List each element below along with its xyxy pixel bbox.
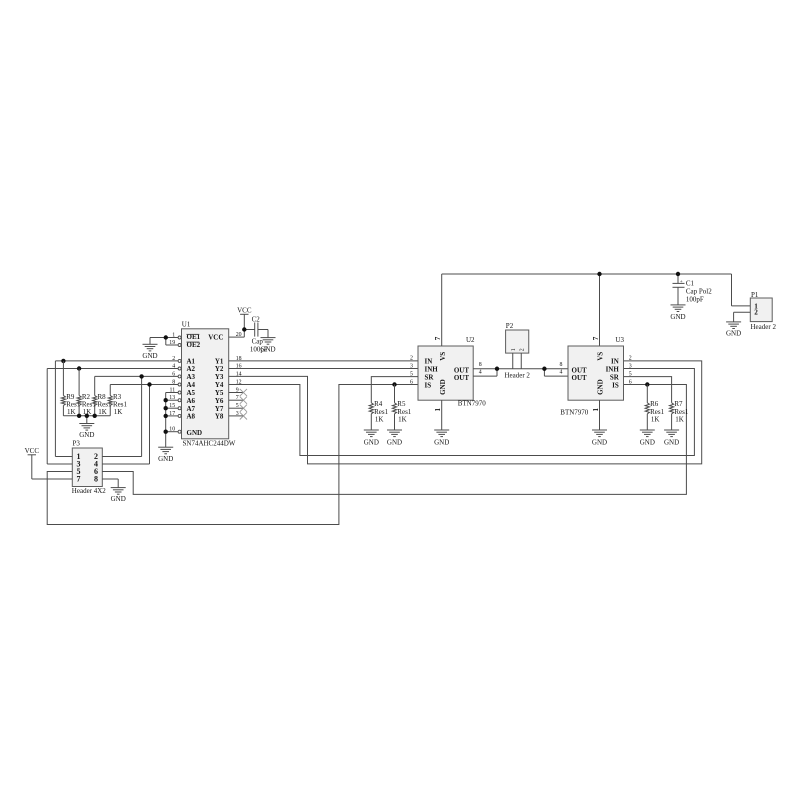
junction pin10 bus — [164, 430, 168, 434]
junction R6 top — [645, 382, 649, 386]
svg-text:U2: U2 — [466, 336, 475, 344]
svg-text:6: 6 — [410, 379, 413, 385]
svg-text:2: 2 — [754, 309, 758, 317]
svg-text:A4: A4 — [187, 381, 196, 389]
wire net A2 from P3 pin3 to U1 A2 — [47, 369, 178, 465]
ground OE — [142, 344, 157, 360]
junction VCC C2 — [242, 327, 246, 331]
junction R2 bottom — [77, 414, 81, 418]
junction R8 bottom — [93, 414, 97, 418]
svg-text:7: 7 — [77, 475, 81, 484]
power VCC at P3 pin7 — [25, 447, 40, 455]
ground R5 — [387, 430, 402, 446]
svg-text:GND: GND — [597, 379, 605, 395]
U2 pin numbers — [410, 336, 482, 411]
svg-text:GND: GND — [260, 345, 275, 353]
svg-text:Header 2: Header 2 — [504, 371, 530, 379]
wire net Y2 U1 to U2 INH — [229, 368, 418, 370]
svg-text:Header 4X2: Header 4X2 — [72, 487, 107, 495]
svg-text:VS: VS — [597, 352, 605, 361]
svg-text:A2: A2 — [187, 365, 196, 373]
svg-text:1K: 1K — [651, 416, 660, 424]
svg-text:1: 1 — [434, 408, 442, 412]
svg-text:BTN7970: BTN7970 — [458, 400, 487, 408]
svg-text:SR: SR — [425, 373, 435, 381]
svg-text:IS: IS — [425, 381, 432, 389]
svg-text:GND: GND — [670, 313, 685, 321]
wire net A3 from R8 and P3 pin2 to U1 A3 — [95, 376, 178, 456]
junction A8 bus — [164, 414, 168, 418]
svg-text:A6: A6 — [187, 397, 196, 405]
resistor R2 1K — [77, 393, 96, 416]
svg-text:6: 6 — [629, 379, 632, 385]
svg-text:4: 4 — [479, 370, 482, 376]
svg-text:C2: C2 — [252, 315, 261, 323]
svg-text:VCC: VCC — [25, 447, 40, 455]
svg-text:OUT: OUT — [572, 374, 588, 382]
svg-text:Y2: Y2 — [215, 365, 224, 373]
wire R4 bottom — [370, 414, 372, 430]
svg-text:1K: 1K — [67, 408, 76, 416]
wire Y8 no-connect stub — [229, 415, 244, 417]
svg-text:GND: GND — [158, 455, 173, 463]
resistor R5 1K — [392, 400, 411, 423]
svg-text:P2: P2 — [506, 322, 514, 330]
wire P1 pin2 to ground — [734, 312, 751, 322]
wire R4 to U2 SR — [371, 377, 418, 403]
svg-text:GND: GND — [434, 438, 449, 446]
wire U3 SR to R7 — [624, 377, 672, 403]
svg-text:INH: INH — [425, 365, 439, 373]
junction A1/R9 — [61, 359, 65, 363]
resistor R9 1K — [61, 393, 80, 416]
svg-text:SN74AHC244DW: SN74AHC244DW — [183, 440, 236, 448]
svg-text:BTN7970: BTN7970 — [560, 408, 589, 416]
ground P1 — [726, 322, 741, 338]
svg-text:GND: GND — [187, 429, 203, 437]
wire R6 top — [646, 385, 648, 403]
svg-text:1K: 1K — [675, 416, 684, 424]
svg-text:Y6: Y6 — [215, 397, 224, 405]
svg-text:8: 8 — [479, 362, 482, 368]
svg-text:GND: GND — [664, 438, 679, 446]
junction OUT left — [495, 367, 499, 371]
wire R5 bottom — [394, 414, 396, 430]
ground R6 — [640, 430, 655, 446]
junction A2/R2 — [77, 366, 81, 370]
ground R4 — [364, 430, 379, 446]
svg-text:100pF: 100pF — [686, 295, 704, 303]
capacitor C2 100pF — [250, 315, 268, 353]
U3 pin numbers — [560, 336, 632, 411]
resistor R3 1K — [108, 393, 127, 416]
wire R5 top — [394, 385, 396, 403]
svg-text:Y3: Y3 — [215, 373, 224, 381]
wire resistor bottoms common rail — [63, 406, 110, 424]
ground pull resistors — [79, 424, 94, 440]
wire P2 pins — [513, 353, 522, 369]
svg-text:A8: A8 — [187, 413, 196, 421]
wire net IS2 P3 pin5 to U2 IS (routed) — [47, 385, 418, 525]
wire net IS3 P3 pin6 to U3 IS (routed) — [102, 385, 686, 495]
svg-text:2: 2 — [410, 356, 413, 362]
wire Y7 no-connect stub — [229, 407, 244, 409]
junction A6 bus — [164, 398, 168, 402]
svg-text:2: 2 — [520, 348, 526, 351]
svg-text:8: 8 — [560, 362, 563, 368]
junction A7 bus — [164, 406, 168, 410]
header P2 body — [504, 322, 530, 379]
svg-text:7: 7 — [592, 336, 600, 340]
wire R2 top — [78, 369, 80, 396]
svg-text:1K: 1K — [398, 416, 407, 424]
capacitor C1 Cap Pol2 100pF — [673, 279, 713, 305]
wire R6 bottom — [646, 414, 648, 430]
svg-text:C1: C1 — [686, 280, 695, 288]
svg-text:8: 8 — [94, 475, 98, 484]
wire VS rail U2/U3/C1/P1 — [442, 274, 751, 346]
svg-text:1K: 1K — [98, 408, 107, 416]
wire Y5 no-connect stub — [229, 392, 244, 394]
svg-text:4: 4 — [560, 370, 563, 376]
junction OE pins — [164, 335, 168, 339]
wire net Y3 U1 to U3 IN (routed) — [229, 361, 702, 464]
svg-text:OUT: OUT — [454, 374, 470, 382]
U1 left pin stubs with input circles and pin numbers — [169, 332, 181, 433]
junction gnd tap — [85, 414, 89, 418]
header P3 4X2 body — [72, 440, 107, 495]
IC U2 BTN7970 body — [418, 336, 486, 407]
wire OUT net U2 to U3 with P2 taps — [473, 369, 568, 376]
junction U3 VS — [597, 272, 601, 276]
svg-text:GND: GND — [111, 495, 126, 503]
svg-text:U3: U3 — [615, 336, 624, 344]
junction A4 branch — [147, 382, 151, 386]
svg-text:Cap: Cap — [252, 337, 264, 345]
ground U2 — [434, 430, 449, 446]
junction A3 branch — [139, 374, 143, 378]
svg-text:GND: GND — [640, 438, 655, 446]
svg-text:GND: GND — [364, 438, 379, 446]
wire net A1 from P3 pin1 to U1 A1 — [55, 361, 178, 457]
wire VCC stem P3 — [31, 455, 33, 479]
wire A5-A8 and GND pin bus — [166, 393, 178, 448]
svg-text:SR: SR — [610, 373, 620, 381]
wire U3 GND pin — [599, 400, 601, 430]
svg-text:Y8: Y8 — [215, 413, 224, 421]
svg-text:Y4: Y4 — [215, 381, 224, 389]
svg-text:VCC: VCC — [237, 307, 252, 315]
wire P3 pin stubs — [32, 457, 150, 480]
ground U3 — [592, 430, 607, 446]
junction R5 top — [392, 382, 396, 386]
wire net Y1 U1 to U2 IN — [229, 360, 418, 362]
svg-text:7: 7 — [434, 336, 442, 340]
svg-text:2: 2 — [629, 356, 632, 362]
resistor R7 1K — [670, 400, 689, 423]
junction OUT right — [542, 367, 546, 371]
ground C2 — [260, 338, 275, 354]
svg-text:GND: GND — [592, 438, 607, 446]
ground C1 — [670, 305, 685, 321]
U1 right pin numbers — [236, 332, 242, 417]
svg-text:1K: 1K — [375, 416, 384, 424]
svg-text:Header 2: Header 2 — [751, 323, 777, 331]
header P1 body — [750, 291, 776, 331]
svg-text:U1: U1 — [182, 321, 191, 329]
ground U1 bus — [158, 447, 173, 463]
resistor R4 1K — [369, 400, 388, 423]
svg-text:GND: GND — [387, 438, 402, 446]
svg-text:GND: GND — [439, 379, 447, 395]
wire net Y4 U1 to U3 INH (routed) — [229, 369, 695, 456]
svg-text:IS: IS — [612, 381, 619, 389]
wire Y6 no-connect stub — [229, 399, 244, 401]
wire VCC to U1 pin20 and C2 — [229, 314, 268, 337]
resistor R8 1K — [93, 393, 112, 416]
svg-text:P1: P1 — [751, 291, 759, 299]
svg-text:GND: GND — [79, 431, 94, 439]
svg-text:1: 1 — [511, 348, 517, 351]
IC U3 BTN7970 body — [560, 336, 624, 416]
ground R7 — [664, 430, 679, 446]
svg-text:1K: 1K — [114, 408, 123, 416]
IC U1 SN74AHC244DW body — [182, 321, 236, 448]
svg-text:VS: VS — [439, 352, 447, 361]
svg-text:3: 3 — [629, 363, 632, 369]
svg-text:A3: A3 — [187, 373, 196, 381]
junction C1 tap — [676, 272, 680, 276]
resistor R6 1K — [645, 400, 664, 423]
svg-text:P3: P3 — [73, 440, 81, 448]
wire R7 bottom — [671, 414, 673, 430]
wire P3 pin8 to ground — [117, 479, 119, 488]
svg-text:+: + — [680, 279, 683, 285]
svg-text:3: 3 — [410, 363, 413, 369]
svg-text:Cap Pol2: Cap Pol2 — [686, 288, 712, 296]
svg-text:GND: GND — [726, 330, 741, 338]
wire net A4 from R3 and P3 pin4 to U1 A4 — [102, 385, 178, 465]
power VCC above U1 pin 20 — [237, 307, 252, 315]
wire U2 GND pin — [441, 400, 443, 430]
ground P3 pin8 — [111, 488, 126, 504]
svg-text:INH: INH — [606, 365, 620, 373]
wire R9 top — [62, 361, 64, 396]
svg-text:GND: GND — [142, 352, 157, 360]
svg-text:VCC: VCC — [208, 333, 223, 341]
svg-text:1: 1 — [592, 408, 600, 412]
wire OE1/OE2 to ground — [150, 338, 178, 346]
